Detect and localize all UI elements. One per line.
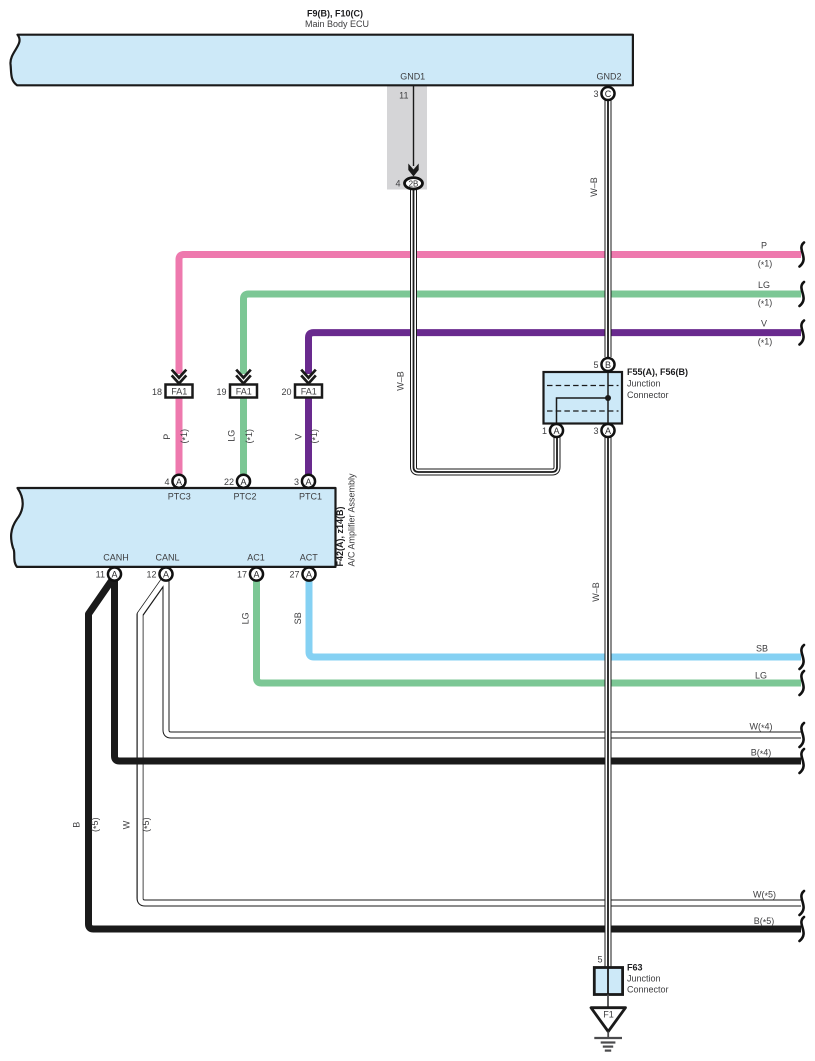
svg-text:B(*5): B(*5) [754, 916, 775, 928]
svg-text:(*1): (*1) [244, 429, 256, 444]
svg-text:B: B [605, 360, 611, 370]
svg-text:AC1: AC1 [247, 553, 265, 563]
fuse box FA1 18 [166, 385, 193, 398]
ground triangle F1 [591, 1008, 626, 1032]
svg-text:P: P [761, 241, 767, 251]
svg-text:LG: LG [758, 280, 770, 290]
svg-text:11: 11 [399, 90, 408, 100]
wire B CANH diagonal + B(*5) [89, 580, 802, 929]
wire W CANL vertical + W(*4) and diagonal + W(*5) [140, 576, 801, 903]
GND1 arrow [408, 164, 418, 177]
svg-text:Junction: Junction [627, 379, 661, 389]
svg-text:A: A [111, 570, 117, 580]
svg-text:Connector: Connector [627, 985, 669, 995]
svg-text:5: 5 [593, 360, 598, 370]
svg-text:A: A [240, 477, 246, 487]
wire V violet lower to pin 3 [305, 398, 312, 478]
svg-text:27: 27 [289, 570, 299, 580]
svg-text:PTC2: PTC2 [233, 491, 256, 501]
svg-text:A: A [605, 426, 611, 436]
svg-text:4: 4 [395, 179, 400, 189]
A/C amplifier pins bottom [108, 568, 121, 581]
svg-text:CANL: CANL [155, 553, 179, 563]
svg-text:C: C [605, 89, 612, 99]
svg-text:19: 19 [216, 387, 226, 397]
connector C GND2 [601, 87, 614, 100]
svg-text:SB: SB [293, 612, 303, 624]
fuse box FA1 20 [295, 385, 322, 398]
wire SB from ACT pin 27 [309, 578, 801, 657]
connector A pin 1 [550, 424, 563, 437]
wire F63 to ground [607, 995, 609, 1009]
ground symbol [607, 1032, 609, 1038]
svg-text:F42(A), z14(B): F42(A), z14(B) [335, 506, 345, 566]
svg-text:Main Body ECU: Main Body ECU [305, 19, 369, 29]
svg-text:18: 18 [152, 387, 162, 397]
connector B pin 5 [601, 358, 614, 371]
svg-text:A: A [306, 570, 312, 580]
svg-text:GND2: GND2 [596, 72, 621, 82]
svg-text:B: B [72, 822, 82, 828]
junction internal wire pin1 branch [557, 398, 609, 424]
svg-text:Junction: Junction [627, 974, 661, 984]
svg-text:LG: LG [241, 612, 251, 624]
wire P pink lower to pin 4 [176, 398, 183, 478]
svg-text:(*1): (*1) [758, 336, 773, 348]
wire P pink upper [179, 255, 801, 375]
svg-text:V: V [761, 318, 767, 328]
svg-text:20: 20 [281, 387, 291, 397]
svg-text:W–B: W–B [591, 582, 601, 602]
svg-text:(*1): (*1) [309, 429, 321, 444]
svg-text:W–B: W–B [396, 371, 406, 391]
svg-text:F9(B), F10(C): F9(B), F10(C) [307, 9, 363, 19]
svg-text:11: 11 [96, 570, 105, 580]
svg-text:PTC3: PTC3 [168, 491, 191, 501]
GND1 internal wire [413, 86, 415, 166]
svg-text:F1: F1 [603, 1010, 614, 1020]
svg-text:A: A [253, 570, 259, 580]
svg-text:W(*4): W(*4) [749, 722, 772, 734]
wire W-B GND2 to junction pin B [605, 100, 612, 357]
svg-text:P: P [162, 434, 172, 440]
junction connector F55/F56 box [544, 372, 623, 424]
svg-text:(*5): (*5) [141, 817, 153, 832]
wire B CANH vertical + B(*4) [115, 578, 802, 761]
junction internal wire pin5 to pin3 [607, 372, 609, 424]
svg-text:W: W [122, 820, 132, 829]
svg-text:3: 3 [593, 426, 598, 436]
svg-text:A: A [305, 477, 311, 487]
svg-text:12: 12 [146, 570, 156, 580]
wire LG green upper [244, 294, 802, 374]
svg-text:F63: F63 [627, 962, 643, 972]
svg-text:(*5): (*5) [90, 817, 102, 832]
svg-text:22: 22 [224, 477, 234, 487]
svg-text:F55(A), F56(B): F55(A), F56(B) [627, 367, 688, 377]
svg-text:W–B: W–B [589, 177, 599, 197]
svg-text:ACT: ACT [300, 553, 319, 563]
svg-text:PTC1: PTC1 [299, 491, 322, 501]
connector A pin 3 [601, 424, 614, 437]
wire W-B from 2B to junction pin 1 [414, 189, 558, 472]
svg-text:2B: 2B [409, 179, 419, 188]
svg-text:GND1: GND1 [400, 72, 425, 82]
svg-text:17: 17 [237, 570, 247, 580]
wire V violet upper [309, 333, 802, 374]
shield gray area GND1 [387, 85, 427, 190]
ECU box F9/F10 Main Body ECU [10, 35, 632, 86]
wire LG green lower to pin 22 [240, 398, 247, 478]
svg-text:W(*5): W(*5) [753, 890, 776, 902]
continuation symbols right edge [800, 243, 805, 942]
svg-text:3: 3 [593, 89, 598, 99]
svg-text:LG: LG [226, 430, 236, 442]
svg-text:A: A [176, 477, 182, 487]
svg-text:A: A [163, 570, 169, 580]
A/C amplifier box F42/z14 [11, 488, 335, 567]
wire W-B junction pin 3 to F63 [605, 437, 612, 967]
svg-text:FA1: FA1 [301, 386, 317, 396]
svg-text:A/C Amplifier Assembly: A/C Amplifier Assembly [347, 473, 357, 567]
svg-text:1: 1 [542, 426, 547, 436]
svg-text:(*1): (*1) [758, 298, 773, 310]
svg-text:A: A [553, 426, 559, 436]
A/C amplifier pins top [172, 475, 185, 488]
svg-text:Connector: Connector [627, 390, 669, 400]
svg-text:FA1: FA1 [171, 386, 187, 396]
svg-text:(*1): (*1) [758, 258, 773, 270]
junction connector dashed bus lines [547, 385, 619, 387]
junction connector F63 [594, 968, 622, 995]
svg-text:LG: LG [755, 671, 767, 681]
arrow above FA1 20 [301, 370, 316, 384]
arrow above FA1 19 [236, 370, 251, 384]
svg-text:V: V [294, 434, 304, 440]
connector 2B ellipse [405, 178, 423, 189]
svg-text:3: 3 [294, 477, 299, 487]
svg-text:CANH: CANH [103, 553, 129, 563]
svg-text:FA1: FA1 [236, 386, 252, 396]
svg-text:B(*4): B(*4) [751, 748, 772, 760]
svg-text:SB: SB [756, 644, 768, 654]
wire LG from AC1 pin 17 [257, 578, 802, 683]
svg-text:5: 5 [597, 954, 602, 964]
junction node dot [605, 395, 611, 401]
arrow above FA1 18 [172, 370, 187, 384]
fuse box FA1 19 [230, 385, 257, 398]
svg-text:4: 4 [164, 477, 169, 487]
svg-text:(*1): (*1) [179, 429, 191, 444]
